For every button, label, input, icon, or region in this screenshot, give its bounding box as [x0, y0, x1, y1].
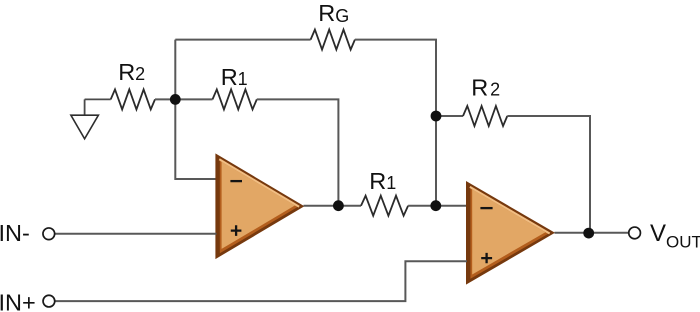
wire node B to R2 right — [436, 115, 463, 117]
svg-text:R2: R2 — [118, 59, 145, 85]
U2 inverting input minus sign — [480, 207, 492, 209]
resistor R1 (left) — [213, 89, 257, 109]
svg-text:R1: R1 — [221, 64, 248, 90]
terminal IN- — [43, 228, 55, 240]
node U1-output junction dot — [333, 200, 344, 211]
U1 inverting input minus sign — [230, 180, 242, 182]
resistor R1 (middle) — [361, 196, 408, 216]
svg-text:IN+: IN+ — [0, 290, 36, 312]
wire RG to node B — [355, 40, 436, 116]
wire node B down to node C — [435, 116, 437, 206]
node B junction dot — [431, 111, 442, 122]
svg-text:IN-: IN- — [0, 220, 30, 246]
op-amp U2 — [466, 181, 555, 285]
wire node A up and to U1 inverting input — [175, 40, 216, 179]
ground — [71, 99, 111, 138]
wire R2 to node A — [155, 98, 175, 100]
wire R1 right to op1 output node — [257, 99, 339, 205]
wire IN- to U1 non-inverting input — [55, 233, 217, 235]
terminal IN+ — [43, 295, 55, 307]
svg-text:R2: R2 — [471, 75, 500, 101]
output junction dot — [583, 228, 594, 239]
resistor RG — [311, 30, 355, 50]
node C junction dot — [430, 200, 441, 211]
svg-text:RG: RG — [318, 0, 349, 26]
wire top to RG — [175, 39, 310, 41]
wire U2 output to VOUT terminal — [555, 232, 629, 234]
wire U1 output through node to R1 middle — [304, 205, 362, 207]
wire R2 right to output node — [507, 116, 590, 233]
wire IN+ to U2 non-inverting input — [55, 261, 467, 301]
svg-text:VOUT: VOUT — [650, 220, 700, 252]
U1 non-inverting input plus sign — [231, 225, 242, 236]
U2 non-inverting input plus sign — [481, 253, 492, 263]
terminal VOUT — [629, 227, 641, 239]
wire R1 middle to U2 inverting input — [408, 205, 467, 207]
svg-text:R1: R1 — [369, 168, 396, 194]
resistor R2 (left) — [111, 89, 155, 109]
wire node A to R1 — [175, 98, 212, 100]
op-amp U1 — [215, 153, 304, 259]
resistor R2 (right) — [463, 106, 507, 126]
node A junction dot — [170, 94, 181, 105]
